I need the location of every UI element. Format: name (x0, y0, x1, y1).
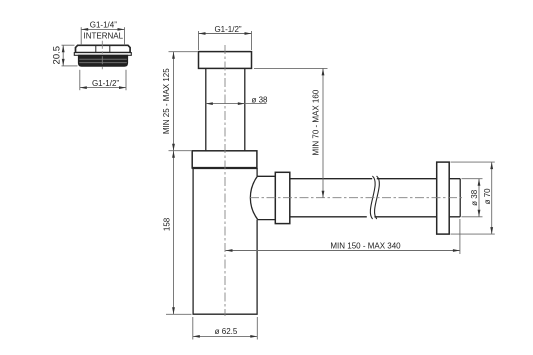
elbow nut (275, 172, 290, 223)
dimension diameter 38 riser (206, 96, 268, 105)
cup top nut (192, 151, 257, 168)
svg-text:ø 62.5: ø 62.5 (215, 327, 238, 336)
svg-text:MIN 25 - MAX 125: MIN 25 - MAX 125 (162, 68, 171, 134)
svg-text:MIN 150 - MAX 340: MIN 150 - MAX 340 (330, 241, 401, 250)
dimension 20.5 (51, 45, 77, 66)
svg-text:G1-1/2”: G1-1/2” (214, 25, 241, 34)
pipe break symbol (370, 176, 379, 219)
dimension G1-1/2 detail (80, 70, 126, 90)
detail fitting hex body (76, 45, 131, 52)
dimension diameter 70 (451, 162, 495, 234)
riser pipe (206, 68, 245, 150)
svg-text:ø 70: ø 70 (483, 188, 492, 205)
svg-text:INTERNAL: INTERNAL (84, 32, 124, 41)
detail fitting lip (74, 53, 131, 56)
svg-text:G1-1/2”: G1-1/2” (92, 79, 119, 88)
elbow bulb (250, 176, 275, 219)
wall flange (437, 162, 450, 234)
horizontal pipe (290, 179, 460, 217)
dimension MIN 150 - MAX 340 (226, 219, 460, 254)
dimension diameter 62.5 (193, 317, 257, 340)
svg-text:ø 38: ø 38 (470, 189, 479, 206)
dimension G1-1/4 INTERNAL (81, 20, 124, 45)
riser centerline (224, 45, 226, 316)
dimension G1-1/2 top (199, 25, 252, 50)
pipe centerline (250, 197, 462, 199)
svg-text:MIN 70 - MAX 160: MIN 70 - MAX 160 (311, 89, 320, 155)
detail fitting threaded band (78, 55, 127, 66)
dimension MIN 25 - MAX 125 (162, 52, 198, 151)
svg-text:158: 158 (163, 217, 172, 231)
cup body (193, 168, 257, 314)
svg-text:20.5: 20.5 (51, 46, 62, 65)
dimension 158 (163, 151, 192, 315)
detail fitting centerline (101, 41, 103, 70)
svg-text:ø 38: ø 38 (251, 96, 268, 105)
svg-text:G1-1/4”: G1-1/4” (90, 20, 117, 29)
riser top flange (199, 52, 252, 69)
dimension MIN 70 - MAX 160 (254, 68, 328, 197)
dimension diameter 38 outlet (462, 179, 483, 217)
